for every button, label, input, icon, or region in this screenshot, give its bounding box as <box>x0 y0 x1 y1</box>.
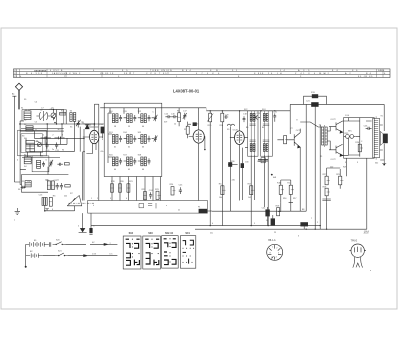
tuning capacitor C2 <box>36 111 50 121</box>
resistor R6 <box>49 197 52 206</box>
svg-text:K B.: K B. <box>210 70 222 72</box>
resistor R4 <box>47 181 50 190</box>
wire box row links <box>108 113 154 163</box>
wire low branch tail <box>88 255 118 257</box>
lower bus y192.2 <box>22 175 49 193</box>
trimmer C17 <box>183 113 187 120</box>
wire bottom right bus <box>195 228 367 230</box>
wire pot down <box>45 206 75 211</box>
svg-text:8: 8 <box>270 252 271 254</box>
svg-text:5k6: 5k6 <box>45 179 48 181</box>
lower bus y174.5 <box>22 174 69 176</box>
svg-text:C4 85 1K: C4 85 1K <box>100 73 114 75</box>
svg-text:S2: S2 <box>24 124 26 126</box>
resistor R26 <box>358 144 363 152</box>
pinout box S01 <box>180 232 195 268</box>
bandfilter unit row2 a <box>112 135 122 144</box>
connector P1 <box>199 209 212 213</box>
bandfilter unit row1 b <box>127 114 137 123</box>
svg-text:2n: 2n <box>52 149 54 151</box>
junction dot pot gnd <box>44 210 46 212</box>
resistor R22 <box>144 192 147 200</box>
svg-text:6 H 2: 6 H 2 <box>320 73 330 75</box>
electrolytic C22 <box>265 207 269 226</box>
pinout box S03 <box>143 232 161 269</box>
svg-text:220: 220 <box>330 166 333 168</box>
capacitor C28 <box>50 242 51 247</box>
switch contact S7 <box>21 186 26 189</box>
output transformer T6 <box>373 116 380 159</box>
svg-text:F4B.H: F4B.H <box>378 70 385 72</box>
battery tiny labels <box>30 226 113 256</box>
output stage box <box>344 118 375 159</box>
capacitor C27 loop <box>322 196 330 202</box>
IF transformer can 2 <box>261 111 273 156</box>
svg-text:OC44: OC44 <box>86 125 92 127</box>
svg-text:S24: S24 <box>262 109 265 111</box>
svg-text:4: 4 <box>93 70 95 72</box>
wire bus right vertical <box>289 104 291 134</box>
svg-text:e: e <box>14 219 15 221</box>
svg-text:GEGEVENS: GEGEVENS <box>34 70 47 72</box>
capacitor C16 <box>172 115 178 118</box>
svg-text:66: 66 <box>142 169 144 171</box>
svg-text:3: 3 <box>298 235 299 237</box>
variable capacitor C8 <box>51 110 56 121</box>
resistor R4b <box>51 181 54 190</box>
vertical link x56 <box>56 110 58 125</box>
wire detector link <box>277 139 288 141</box>
svg-text:JARI55GB K WH 3: JARI55GB K WH 3 <box>52 72 81 75</box>
svg-text:J10-8: J10-8 <box>363 232 369 234</box>
svg-text:B5: B5 <box>246 127 248 129</box>
wire bottom mid bus <box>91 225 320 227</box>
wire top bus left <box>100 107 206 109</box>
switch contact row S6a <box>41 136 51 139</box>
transistor Q6 OC72 <box>329 144 343 156</box>
transistor T1 OC44 <box>83 124 103 154</box>
coil S2 <box>26 126 33 131</box>
vertical feed wire 1 <box>93 104 95 126</box>
svg-text:OC72: OC72 <box>330 119 336 121</box>
svg-text:9: 9 <box>345 162 346 164</box>
svg-text:4 7 5 K 6: 4 7 5 K 6 <box>196 73 221 75</box>
wire output box internals <box>349 121 372 155</box>
svg-text:B8: B8 <box>302 209 304 211</box>
svg-text:S04: S04 <box>129 232 134 235</box>
capacitor C11 <box>55 142 58 148</box>
wire vertical drop x315 <box>314 104 316 229</box>
capacitor C15 <box>165 115 171 118</box>
bus y128.6 <box>21 128 64 130</box>
capacitor C20 <box>273 113 276 121</box>
wire mid drops <box>210 126 247 226</box>
resistor R17 <box>289 180 294 202</box>
svg-text:21: 21 <box>178 210 180 212</box>
wire right stage drops <box>327 158 367 229</box>
vertical link x47 <box>46 124 48 144</box>
svg-text:R30: R30 <box>231 161 234 163</box>
svg-text:60: 60 <box>142 126 144 128</box>
wire box outputs down <box>112 177 153 201</box>
resistor R5 <box>65 185 70 187</box>
svg-text:82p: 82p <box>36 141 39 143</box>
parts-table row line 1 <box>14 71 391 73</box>
wire T1 feeds <box>84 124 98 154</box>
battery B2 cells <box>26 253 43 257</box>
svg-text:85 JR 85: 85 JR 85 <box>358 76 373 78</box>
wire AF column links <box>281 180 293 211</box>
resistor R12 <box>284 136 289 144</box>
svg-text:50: 50 <box>266 220 268 222</box>
junction dots bottom buses <box>210 225 328 230</box>
svg-text:63: 63 <box>142 147 144 149</box>
long bus y151.6 <box>30 151 74 153</box>
svg-text:k: k <box>93 205 94 207</box>
resistor R16 <box>279 180 284 202</box>
capacitor C30 <box>241 148 244 200</box>
svg-text:98 4 T: 98 4 T <box>124 73 135 75</box>
svg-text:1: 1 <box>176 76 178 78</box>
oscillator coil S5 <box>70 113 76 122</box>
antenna A1 diamond <box>15 83 22 90</box>
parts-table column dividers <box>16 69 383 78</box>
svg-text:1n: 1n <box>35 129 37 131</box>
scattered value labels <box>14 107 378 237</box>
junction dots bus mid <box>210 110 276 111</box>
wire right rail <box>380 104 384 160</box>
trimmer C9 <box>76 120 81 128</box>
wire chassis to bus <box>212 210 306 212</box>
wire into driver stage <box>300 122 322 127</box>
svg-text:B 6 4: B 6 4 <box>182 70 192 72</box>
svg-text:5: 5 <box>143 198 144 200</box>
svg-text:61: 61 <box>114 147 116 149</box>
resistor R19 <box>111 184 114 192</box>
trimmer row2 d <box>154 135 158 142</box>
wire osc top bus <box>30 109 66 111</box>
coil S8 <box>25 181 31 187</box>
wire top link <box>94 103 98 105</box>
contact stub links <box>26 110 74 175</box>
svg-text:C8: C8 <box>51 108 53 110</box>
svg-text:4 852 B: 4 852 B <box>50 70 63 72</box>
svg-text:B8-1-A: B8-1-A <box>268 239 276 242</box>
resistor R21 <box>127 184 130 192</box>
svg-text:x: x <box>166 205 167 207</box>
coil S4 <box>24 157 31 164</box>
vertical link x84 <box>83 129 84 201</box>
wire top bus right <box>290 103 384 105</box>
svg-text:K 6: K 6 <box>352 70 358 72</box>
coil-pack box <box>104 103 162 176</box>
wire driver links <box>327 121 348 156</box>
svg-text:K 85: K 85 <box>254 73 262 75</box>
feedback loop R13 C21 <box>304 94 327 107</box>
junction dots input unit <box>54 118 56 124</box>
capacitor C12 <box>56 183 59 190</box>
svg-text:S1: S1 <box>21 107 23 109</box>
svg-text:2: 2 <box>276 247 277 249</box>
bandfilter unit row1 c <box>141 114 151 123</box>
volume potentiometer R7 <box>67 195 82 205</box>
svg-text:1n: 1n <box>57 179 59 181</box>
capacitor C24 <box>149 192 152 199</box>
parts-table row line 2 <box>14 73 391 75</box>
transistor T3 OC45 <box>230 111 248 201</box>
svg-text:2: 2 <box>300 76 302 78</box>
svg-text:J 4: J 4 <box>280 70 286 72</box>
bandfilter unit row3 b <box>127 157 137 166</box>
svg-text:58: 58 <box>114 126 116 128</box>
svg-text:25: 25 <box>274 232 276 234</box>
capacitor C29 <box>224 115 228 118</box>
resistor R8 <box>178 108 181 126</box>
chassis flat box <box>88 201 208 214</box>
svg-text:1k: 1k <box>174 123 176 125</box>
parts-table outer frame <box>14 69 391 78</box>
electrolytic C23 <box>271 215 275 225</box>
svg-text:1: 1 <box>91 198 92 200</box>
bandfilter unit row3 a <box>112 157 122 166</box>
svg-text:7: 7 <box>311 218 312 220</box>
svg-text:240: 240 <box>232 180 235 182</box>
svg-text:L4X08T-00-01: L4X08T-00-01 <box>173 88 200 93</box>
svg-text:2: 2 <box>97 198 98 200</box>
svg-text:S01: S01 <box>185 232 190 235</box>
wire IF can1 drops <box>251 155 254 226</box>
svg-text:6: 6 <box>159 198 160 200</box>
connector diagram TP6 <box>349 241 366 268</box>
capacitor C26 <box>366 127 372 130</box>
resistor R32 <box>64 163 69 165</box>
svg-text:R29: R29 <box>343 166 346 168</box>
input unit box <box>22 110 64 125</box>
trimmer C32 <box>49 160 53 167</box>
svg-text:S9: S9 <box>227 129 229 131</box>
resistor R9 <box>186 122 189 139</box>
AGC line stub <box>228 162 238 167</box>
svg-text:90: 90 <box>62 149 64 151</box>
svg-text:TP6-E: TP6-E <box>351 241 358 243</box>
svg-text:4: 4 <box>212 223 213 225</box>
svg-text:OC45: OC45 <box>193 124 199 126</box>
svg-text:5: 5 <box>254 223 255 225</box>
svg-text:10k: 10k <box>219 197 222 199</box>
bandfilter unit row1 a <box>112 114 122 123</box>
vertical link x62 <box>61 124 63 137</box>
svg-text:215: 215 <box>40 156 43 158</box>
svg-text:1: 1 <box>272 247 273 249</box>
svg-text:S3: S3 <box>22 136 24 138</box>
resistor R27 <box>325 168 330 185</box>
svg-text:R16: R16 <box>283 198 286 200</box>
long bus y124 <box>19 123 104 125</box>
coil S3 <box>26 140 35 151</box>
switch S20 <box>53 242 66 245</box>
right rail termination <box>382 160 386 166</box>
wire top branch tail <box>108 243 117 245</box>
coil S1 <box>24 109 31 119</box>
trimmer C6 <box>37 143 41 147</box>
junction dot AGC <box>271 174 273 176</box>
svg-text:4: 4 <box>126 198 127 200</box>
svg-text:5 1: 5 1 <box>232 70 238 72</box>
svg-text:OC45: OC45 <box>233 129 239 131</box>
resistor R20 <box>119 184 122 192</box>
resistor R1 <box>60 112 66 115</box>
svg-text:OC71: OC71 <box>296 130 302 132</box>
capacitor C18 <box>243 116 246 122</box>
svg-text:X1: X1 <box>82 122 84 124</box>
chassis box inner marks <box>139 203 156 208</box>
resistor R23 <box>156 191 161 199</box>
junction dots left bus <box>19 109 95 153</box>
wire left rail lower <box>14 121 21 185</box>
svg-text:A 2: A 2 <box>345 72 352 75</box>
svg-text:21x: 21x <box>210 233 213 235</box>
ground tie G2 <box>45 208 48 209</box>
resistor R10 <box>207 111 213 126</box>
arrow battery top <box>104 243 108 245</box>
svg-text:S03: S03 <box>148 232 153 235</box>
svg-text:B 4: B 4 <box>366 73 372 75</box>
svg-text:C P K T 85: C P K T 85 <box>146 73 168 75</box>
parts-table row texts <box>14 69 386 78</box>
svg-text:A 3.5: A 3.5 <box>298 69 311 72</box>
svg-text:C31 R31: C31 R31 <box>257 161 264 163</box>
svg-text:R17: R17 <box>293 198 296 200</box>
switch contact row S6b <box>55 136 65 139</box>
svg-text:T5: T5 <box>320 156 322 158</box>
pinout box S02-10 <box>162 232 179 268</box>
middle tiny labels <box>86 92 316 210</box>
svg-text:B 6.358: B 6.358 <box>26 73 43 75</box>
switch S21 <box>55 253 67 256</box>
svg-text:4k7: 4k7 <box>58 129 61 131</box>
svg-text:64: 64 <box>114 169 116 171</box>
diode X1 <box>85 125 89 129</box>
wire output box top bus <box>349 118 360 157</box>
svg-text:C30: C30 <box>245 161 248 163</box>
resistor R14 <box>221 186 226 195</box>
svg-text:e: e <box>370 270 371 272</box>
svg-text:1.5V: 1.5V <box>92 253 97 255</box>
bandfilter unit row3 c <box>141 157 151 166</box>
connector K3 <box>300 222 308 229</box>
svg-text:NTC: NTC <box>348 131 353 133</box>
svg-text:8 6: 8 6 <box>332 70 339 72</box>
svg-text:7: 7 <box>64 76 66 78</box>
arrow battery low <box>84 255 88 257</box>
svg-text:B6: B6 <box>262 127 264 129</box>
vertical link x80 <box>79 127 81 152</box>
svg-text:4: 4 <box>276 257 277 259</box>
antenna stem double lead <box>18 90 19 109</box>
vertical feed wire 2 <box>98 104 100 200</box>
bandfilter unit row2 c <box>141 135 151 144</box>
long bus y157.5 <box>22 157 60 159</box>
connector arrow K1 <box>79 213 87 233</box>
svg-text:62: 62 <box>128 147 130 149</box>
svg-text:6k8: 6k8 <box>273 177 276 179</box>
thermistor R25 <box>344 135 356 139</box>
connector diagram B8 <box>267 239 283 260</box>
transistor Q5 OC72 <box>329 121 343 133</box>
resistor R15 <box>250 186 255 195</box>
svg-text:8 24 JH: 8 24 JH <box>262 73 284 75</box>
svg-text:8: 8 <box>238 76 240 78</box>
svg-text:3: 3 <box>278 252 279 254</box>
resistor R24 <box>171 187 176 195</box>
svg-text:S4: S4 <box>24 155 26 157</box>
long bus y131 <box>20 130 64 132</box>
wire speaker link <box>380 125 383 150</box>
svg-text:S02-10: S02-10 <box>165 232 174 235</box>
svg-text:P1: P1 <box>198 206 200 208</box>
loudspeaker LS1 <box>380 131 387 145</box>
wire chassis flat box feeds <box>160 177 162 201</box>
svg-text:3: 3 <box>357 162 358 164</box>
svg-text:2: 2 <box>317 222 318 224</box>
svg-text:OC72: OC72 <box>330 159 336 161</box>
svg-text:4: 4 <box>20 76 22 78</box>
detector T4 OC71 <box>289 129 301 212</box>
svg-text:2k2: 2k2 <box>64 196 67 198</box>
ferrite rod frame outer <box>18 130 47 156</box>
wire into box top <box>110 108 155 115</box>
right tiny labels <box>296 115 383 233</box>
svg-text:8 5: 8 5 <box>122 70 129 72</box>
IF can bottom cluster <box>258 158 268 163</box>
svg-text:3: 3 <box>110 198 111 200</box>
wire battery top branch <box>65 243 104 245</box>
mechanical link dash-dot <box>68 202 94 204</box>
wave-trap unit box <box>32 156 49 172</box>
ground dot battery <box>25 266 27 268</box>
svg-text:1k5: 1k5 <box>248 197 251 199</box>
svg-text:S8: S8 <box>18 189 20 191</box>
svg-text:S5: S5 <box>70 127 72 129</box>
svg-text:59: 59 <box>128 126 130 128</box>
bandfilter unit row2 b <box>127 135 137 144</box>
left tiny labels <box>12 93 84 198</box>
svg-text:3: 3 <box>118 76 120 78</box>
trimmer row1 d <box>154 114 158 121</box>
svg-text:3n9: 3n9 <box>164 121 167 123</box>
long bus y144.4 <box>26 143 67 145</box>
pinout box S04 <box>123 232 141 269</box>
svg-text:8: 8 <box>52 209 53 211</box>
resistor R29 <box>339 169 344 189</box>
svg-text:C29: C29 <box>225 114 228 116</box>
driver transformer T5 <box>322 125 328 147</box>
svg-text:C2: C2 <box>40 109 42 111</box>
electrolytic C14 <box>101 127 105 139</box>
capacitor C33 <box>57 163 63 166</box>
wire battery low branch <box>43 255 84 257</box>
ferrite rod frame inner <box>21 134 43 153</box>
svg-text:47n: 47n <box>100 151 103 153</box>
capacitor C10 <box>45 142 48 148</box>
wire IF can2 drops <box>264 155 268 226</box>
wire vertical drop x306 <box>305 104 307 211</box>
connector arrow K2 <box>89 213 92 234</box>
transistor T2 OC45 <box>189 108 206 201</box>
battery B1 cells <box>26 242 49 247</box>
svg-text:TUBE UNION: TUBE UNION <box>150 70 173 72</box>
resistor R18 <box>277 208 282 216</box>
